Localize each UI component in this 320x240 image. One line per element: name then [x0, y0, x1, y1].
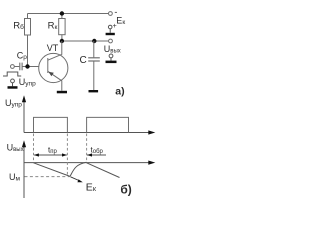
Ek leader line: [71, 177, 81, 181]
dashed level Um: [25, 176, 70, 178]
svg-text:Uвых: Uвых: [104, 44, 121, 55]
tпр right arrowhead: [62, 153, 67, 156]
ground (Uупр source): [8, 86, 18, 89]
lower output terminal circle: [109, 54, 113, 58]
top supply rail wire: [28, 13, 109, 15]
Uвых time axis: [24, 162, 153, 164]
capacitor C plates: [88, 58, 100, 61]
dimension line tобр: [87, 154, 106, 156]
Uупр axis arrowhead: [22, 95, 26, 102]
exponential recovery curve: [70, 162, 87, 176]
svg-text:tпр: tпр: [48, 146, 57, 156]
capacitor Cp plates: [20, 63, 22, 71]
junction dot capacitor C tap: [92, 39, 96, 43]
svg-text:Rб: Rб: [13, 21, 24, 32]
input terminal circle: [11, 65, 15, 69]
+Ek stem wire: [109, 29, 111, 33]
pulse waveform symbol: [3, 72, 21, 76]
control pulse 1: [34, 117, 68, 132]
junction dot rail/Rк: [60, 11, 64, 15]
resistor R6 (Rб): [25, 14, 31, 67]
dashed edge line 2: [66, 134, 68, 175]
dashed edge line 3: [86, 134, 88, 162]
terminal -Ek circle: [109, 12, 113, 16]
Uупр source terminal circle: [11, 79, 15, 83]
Uупр time axis arrowhead: [148, 130, 155, 134]
control pulse 2: [87, 117, 129, 132]
ground (lower output): [106, 61, 117, 64]
ground (capacitor C): [89, 90, 99, 92]
Uвых vertical axis: [23, 146, 25, 198]
ramp 2: [87, 163, 120, 178]
dashed edge line 1: [33, 134, 35, 162]
Uвых axis arrowhead: [22, 140, 26, 147]
svg-text:Uвых: Uвых: [7, 143, 24, 154]
Uупр vertical axis: [23, 101, 25, 133]
svg-text:tобр: tобр: [91, 146, 104, 156]
junction dot base/R6: [25, 64, 29, 68]
junction dot collector node: [60, 39, 64, 43]
Uупр time axis: [24, 132, 153, 134]
svg-text:C: C: [80, 55, 87, 66]
svg-text:Eк: Eк: [86, 181, 97, 193]
svg-text:VT: VT: [47, 43, 59, 53]
svg-text:Uм: Uм: [9, 172, 21, 183]
svg-text:Cр: Cр: [17, 50, 28, 61]
Uвых time axis arrowhead: [148, 161, 155, 165]
svg-text:+: +: [113, 23, 117, 30]
lower output stem wire: [110, 58, 112, 61]
svg-text:б): б): [120, 183, 131, 197]
transistor VT (pnp): [39, 41, 68, 91]
tпр left arrowhead: [34, 153, 39, 156]
collector node wire: [62, 40, 109, 42]
Ek leader arrowhead: [77, 179, 82, 182]
ground (emitter): [57, 91, 67, 94]
svg-text:Uупр: Uупр: [19, 77, 36, 88]
emitter arrow (pnp, points to base): [48, 72, 53, 77]
output terminal circle Uвых: [109, 39, 113, 43]
svg-text:Rк: Rк: [48, 21, 58, 32]
svg-text:а): а): [115, 86, 124, 98]
base wire: [14, 66, 38, 68]
ramp 1 (working stroke): [34, 163, 71, 177]
tобр arrowhead: [87, 153, 92, 156]
svg-text:Eк: Eк: [116, 15, 125, 26]
ground (+Ek): [106, 33, 115, 35]
svg-text:Uупр: Uупр: [5, 98, 22, 109]
dimension line tпр: [34, 154, 66, 156]
resistor Rк: [59, 14, 65, 42]
capacitor C wires: [93, 41, 95, 90]
terminal +Ek circle: [108, 25, 112, 29]
Uупр source stem wire: [12, 83, 14, 86]
